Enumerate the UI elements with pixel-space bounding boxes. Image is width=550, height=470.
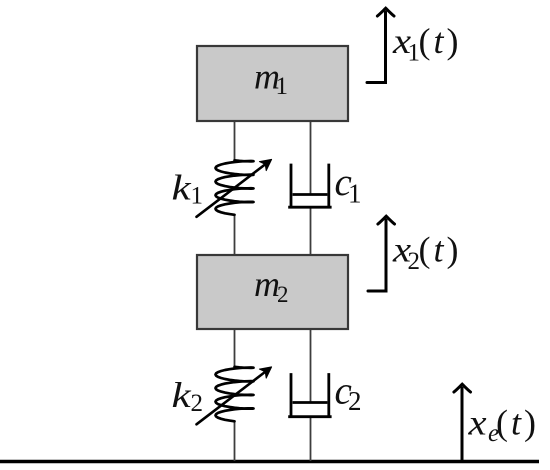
svg-text:k: k: [172, 168, 193, 208]
wire: [310, 417, 312, 461]
svg-text:1: 1: [191, 183, 204, 210]
mass m1: [197, 46, 348, 121]
arrow x2: [368, 216, 395, 291]
svg-text:(t): (t): [419, 21, 462, 61]
mass m2: [197, 255, 348, 329]
wire: [310, 209, 312, 256]
svg-text:1: 1: [348, 179, 362, 209]
svg-text:k: k: [172, 375, 193, 415]
wire: [234, 215, 236, 255]
svg-text:2: 2: [191, 390, 204, 417]
damper c1: [290, 165, 331, 207]
label c1: [335, 161, 362, 209]
label x1(t): [392, 21, 462, 67]
ground: [0, 460, 539, 464]
wire: [310, 329, 312, 403]
label c2: [335, 370, 362, 417]
spring k1: [197, 159, 272, 216]
wire: [310, 121, 312, 195]
wire: [234, 329, 236, 367]
wire: [234, 421, 236, 461]
svg-text:(t): (t): [496, 403, 539, 443]
damper c2: [290, 375, 331, 417]
label x2(t): [392, 230, 462, 276]
svg-text:2: 2: [277, 282, 289, 307]
wire: [234, 121, 236, 161]
svg-text:x: x: [467, 404, 486, 443]
arrow x1: [367, 8, 394, 82]
label k2: [172, 375, 204, 417]
label k1: [172, 168, 204, 210]
label xe(t): [467, 403, 539, 448]
spring k2: [197, 367, 272, 424]
svg-text:1: 1: [276, 73, 289, 100]
arrow xe: [454, 384, 471, 460]
svg-text:(t): (t): [419, 230, 462, 270]
svg-text:2: 2: [348, 386, 362, 416]
